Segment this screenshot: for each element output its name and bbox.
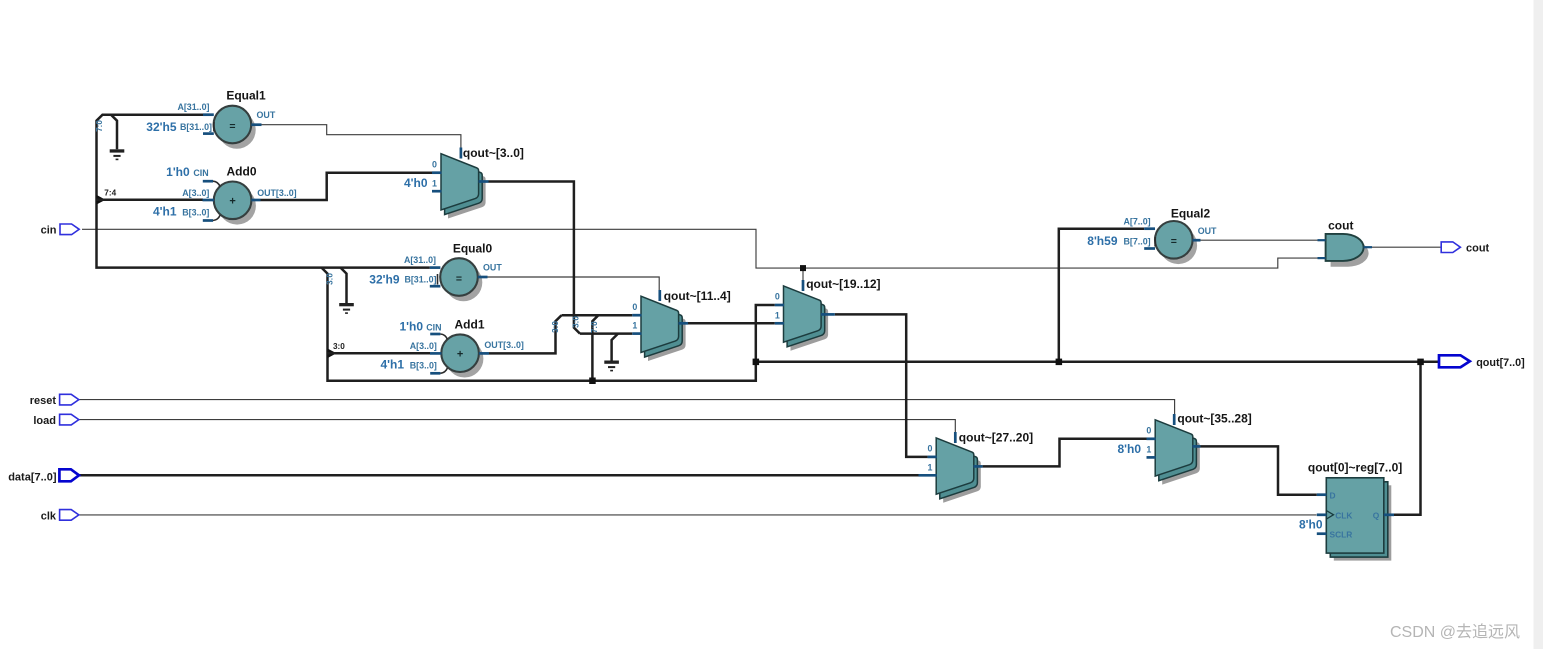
svg-text:CSDN @去追远风: CSDN @去追远风: [1390, 623, 1520, 641]
leader Add0 B: [213, 215, 220, 220]
mux qout~[35..28]: [1155, 420, 1200, 485]
pin stub mux4 out: [974, 465, 983, 468]
node junction J5: [1417, 359, 1424, 366]
svg-text:Q: Q: [1373, 511, 1380, 521]
wire mux3 out to mux4 in0: [835, 314, 928, 457]
pin stub Equal1 A: [203, 113, 214, 116]
svg-text:1: 1: [632, 321, 637, 331]
pin stub reg Q: [1384, 513, 1394, 516]
wire data bus: [79, 474, 919, 477]
leader Equal2 B const: [1154, 237, 1156, 247]
op Add0: [214, 182, 256, 225]
mux qout~[19..12]: [784, 286, 829, 351]
pin stub reg D: [1317, 493, 1327, 496]
svg-text:7:4: 7:4: [104, 189, 116, 198]
ground G3: [604, 361, 619, 372]
pin load: [60, 414, 79, 425]
wire mux2 in0 line: [562, 314, 633, 317]
op Equal0: [440, 258, 482, 301]
svg-text:B[3..0]: B[3..0]: [410, 360, 437, 370]
pin stub mux5 in1: [1147, 456, 1156, 459]
svg-text:0: 0: [1146, 425, 1151, 435]
pin stub mux5 in0: [1147, 437, 1156, 440]
svg-text:qout~[3..0]: qout~[3..0]: [463, 146, 524, 160]
pin stub mux1 in1: [432, 190, 442, 193]
pin stub mux3 in0: [775, 304, 784, 307]
wire ground2 stub: [341, 268, 347, 303]
svg-text:32'h5: 32'h5: [146, 120, 177, 134]
and gate cout: [1326, 234, 1369, 267]
svg-text:qout~[27..20]: qout~[27..20]: [959, 430, 1033, 444]
pin stub mux5 out: [1193, 445, 1201, 448]
svg-text:3:0: 3:0: [551, 321, 560, 333]
svg-text:A[31..0]: A[31..0]: [404, 255, 436, 265]
svg-text:0: 0: [775, 292, 780, 302]
svg-text:OUT[3..0]: OUT[3..0]: [484, 340, 523, 350]
wire Add0 OUT to mux1 in0: [261, 173, 433, 200]
pin stub mux2 in1: [632, 332, 641, 335]
svg-text:1: 1: [1146, 444, 1151, 454]
wire Equal2 OUT to and gate: [1201, 239, 1326, 241]
leader Equal0 B const: [437, 274, 439, 285]
pin stub Equal1 OUT: [251, 123, 261, 126]
pin stub and in1: [1318, 239, 1326, 241]
leader Add1 B: [440, 368, 447, 373]
svg-text:+: +: [457, 349, 463, 361]
svg-text:B[31..0]: B[31..0]: [180, 122, 212, 132]
op Add1: [441, 334, 483, 377]
wire register Q feedback: [1394, 362, 1421, 515]
pin stub Add0 OUT: [251, 199, 260, 202]
svg-text:7:0: 7:0: [590, 321, 599, 333]
wire mux5 out to register D: [1201, 446, 1317, 494]
mux qout~[27..20]: [936, 438, 981, 503]
wire tap to Add0 A: [97, 198, 204, 201]
pin stub Add0 A: [203, 199, 215, 202]
svg-text:1: 1: [928, 462, 933, 472]
svg-text:qout[0]~reg[7..0]: qout[0]~reg[7..0]: [1308, 460, 1402, 474]
pin stub Add1 OUT: [479, 352, 489, 355]
svg-text:0: 0: [432, 159, 437, 169]
node tap 7:4: [97, 195, 106, 205]
pin stub mux3 sel: [802, 280, 805, 291]
wire left rail lower branch to mux3 in0: [322, 268, 775, 381]
svg-text:data[7..0]: data[7..0]: [8, 471, 57, 483]
pin stub Equal2 B: [1144, 247, 1155, 250]
pin stub and out: [1364, 246, 1373, 248]
pin cout: [1441, 242, 1460, 253]
pin stub Add1 B: [430, 372, 440, 375]
svg-text:qout~[19..12]: qout~[19..12]: [806, 277, 880, 291]
svg-text:Equal0: Equal0: [453, 241, 493, 255]
right gray band: [1534, 0, 1543, 649]
svg-text:A[3..0]: A[3..0]: [410, 341, 437, 351]
svg-text:4'h0: 4'h0: [404, 176, 428, 190]
pin stub Equal1 B: [203, 132, 214, 135]
wire Equal2 A riser: [1059, 229, 1144, 362]
leader Equal1 B const: [213, 122, 215, 132]
svg-text:SCLR: SCLR: [1330, 530, 1353, 540]
node junction J4: [1056, 359, 1063, 366]
svg-text:1'h0: 1'h0: [166, 165, 190, 179]
pin stub mux4 sel: [954, 432, 957, 443]
leader Add1 CIN: [440, 334, 447, 339]
pin stub Add1 CIN: [430, 333, 440, 336]
svg-text:1: 1: [775, 310, 780, 320]
wire Equal1 OUT to mux sel: [262, 125, 461, 150]
svg-text:Add0: Add0: [227, 164, 257, 178]
svg-text:A[3..0]: A[3..0]: [182, 188, 209, 198]
wire and gate out to cout pin: [1372, 246, 1441, 248]
pin stub and in2: [1318, 257, 1326, 259]
ground G1: [110, 149, 125, 160]
wire qout ripper up: [592, 315, 598, 381]
svg-text:=: =: [1171, 236, 1177, 248]
svg-text:=: =: [456, 273, 462, 285]
svg-text:OUT: OUT: [483, 263, 502, 273]
pin stub mux2 out: [679, 322, 689, 325]
wire mux2 out to mux3 in1: [688, 322, 775, 325]
wire mux1 out ripper: [489, 182, 580, 334]
svg-text:CLK: CLK: [1335, 511, 1352, 521]
pin stub mux3 out: [821, 313, 835, 316]
pin stub reg CLK: [1317, 513, 1327, 516]
wire Add1 OUT ripper: [489, 315, 562, 353]
pin qout[7..0]: [1439, 355, 1470, 367]
op Equal1: [214, 106, 256, 149]
wire load net: [78, 420, 955, 441]
svg-text:4'h1: 4'h1: [153, 205, 177, 219]
svg-text:3:0: 3:0: [333, 342, 345, 351]
wire qout main bus: [756, 361, 1439, 364]
svg-text:A[7..0]: A[7..0]: [1123, 217, 1150, 227]
wire mux4 out to mux5 in0: [983, 439, 1147, 467]
pin stub Equal0 B: [430, 285, 441, 288]
node junction J3: [800, 265, 806, 271]
svg-text:32'h9: 32'h9: [369, 272, 400, 286]
svg-text:clk: clk: [41, 510, 57, 522]
svg-text:+: +: [229, 196, 235, 208]
pin stub mux5 sel: [1173, 414, 1176, 425]
wire ground3 stub: [612, 334, 618, 361]
svg-text:Equal1: Equal1: [226, 89, 266, 103]
svg-text:1: 1: [432, 178, 437, 188]
node tap 3:0: [328, 349, 337, 359]
svg-text:OUT[3..0]: OUT[3..0]: [257, 188, 296, 198]
op Equal2: [1155, 221, 1197, 264]
wire Equal0 OUT to mux sel: [488, 277, 660, 292]
pin stub Add0 CIN: [203, 180, 213, 183]
svg-text:Add1: Add1: [455, 317, 485, 331]
pin stub mux4 in0: [928, 456, 937, 459]
pin stub Add0 B: [203, 219, 213, 222]
wire reset net: [78, 400, 1175, 422]
node junction J2: [753, 359, 760, 366]
register qout[0]~reg[7..0]: [1326, 478, 1391, 561]
mux qout~[3..0]: [441, 154, 486, 219]
svg-text:cout: cout: [1466, 243, 1490, 255]
pin stub mux2 in0: [632, 314, 641, 317]
wire ground1 stub: [111, 115, 117, 150]
svg-text:0: 0: [632, 302, 637, 312]
pin stub mux1 out: [479, 180, 489, 183]
svg-text:CIN: CIN: [426, 322, 441, 332]
pin stub mux3 in1: [775, 322, 784, 325]
svg-text:OUT: OUT: [257, 110, 276, 120]
wire mux2 in1 line: [580, 332, 632, 335]
pin stub Equal0 A: [430, 266, 441, 269]
svg-text:B[7..0]: B[7..0]: [1123, 236, 1150, 246]
svg-text:1'h0: 1'h0: [399, 319, 423, 333]
svg-text:cin: cin: [41, 224, 57, 236]
pin data[7..0]: [59, 469, 79, 481]
pin stub mux1 sel: [460, 148, 463, 159]
pin reset: [60, 394, 79, 405]
leader Add0 CIN: [213, 181, 220, 186]
pin stub Equal2 A: [1144, 227, 1155, 230]
wire cin net: [82, 229, 1326, 268]
node junction J1: [589, 378, 596, 385]
svg-text:reset: reset: [30, 395, 57, 407]
ground G2: [339, 303, 354, 314]
svg-text:B[31..0]: B[31..0]: [404, 275, 436, 285]
svg-text:load: load: [33, 415, 56, 427]
svg-text:3:0: 3:0: [572, 316, 581, 328]
pin clk: [60, 510, 79, 521]
pin stub mux1 in0: [432, 171, 442, 174]
svg-text:D: D: [1330, 491, 1336, 501]
svg-text:4'h1: 4'h1: [380, 357, 404, 371]
svg-text:Equal2: Equal2: [1171, 206, 1211, 220]
pin stub mux2 sel: [658, 290, 661, 301]
wire mux3 sel drop: [802, 268, 804, 283]
svg-text:B[3..0]: B[3..0]: [182, 208, 209, 218]
svg-text:qout~[11..4]: qout~[11..4]: [664, 289, 731, 303]
svg-text:3:0: 3:0: [326, 273, 335, 285]
pin stub mux4 in1: [919, 474, 937, 477]
pin stub reg SCLR: [1317, 532, 1327, 535]
svg-text:8'h59: 8'h59: [1087, 234, 1118, 248]
pin stub Add1 A: [430, 352, 442, 355]
wire tap to Add1 A: [328, 352, 431, 355]
svg-text:8'h0: 8'h0: [1117, 442, 1141, 456]
pin cin: [60, 224, 79, 235]
svg-text:CIN: CIN: [193, 168, 208, 178]
wire clk net: [78, 514, 1317, 516]
wire Equal1 A bus from left rail: [97, 115, 430, 268]
svg-text:0: 0: [928, 444, 933, 454]
svg-text:7:0: 7:0: [95, 120, 104, 132]
mux qout~[11..4]: [641, 296, 686, 361]
svg-text:cout: cout: [1328, 219, 1353, 233]
pin stub Equal2 OUT: [1193, 239, 1201, 242]
svg-text:8'h0: 8'h0: [1299, 518, 1323, 532]
svg-text:qout[7..0]: qout[7..0]: [1476, 357, 1525, 369]
svg-text:OUT: OUT: [1198, 226, 1217, 236]
svg-text:=: =: [229, 120, 235, 132]
pin stub Equal0 OUT: [478, 276, 488, 279]
svg-text:qout~[35..28]: qout~[35..28]: [1177, 412, 1251, 426]
svg-text:A[31..0]: A[31..0]: [177, 102, 209, 112]
